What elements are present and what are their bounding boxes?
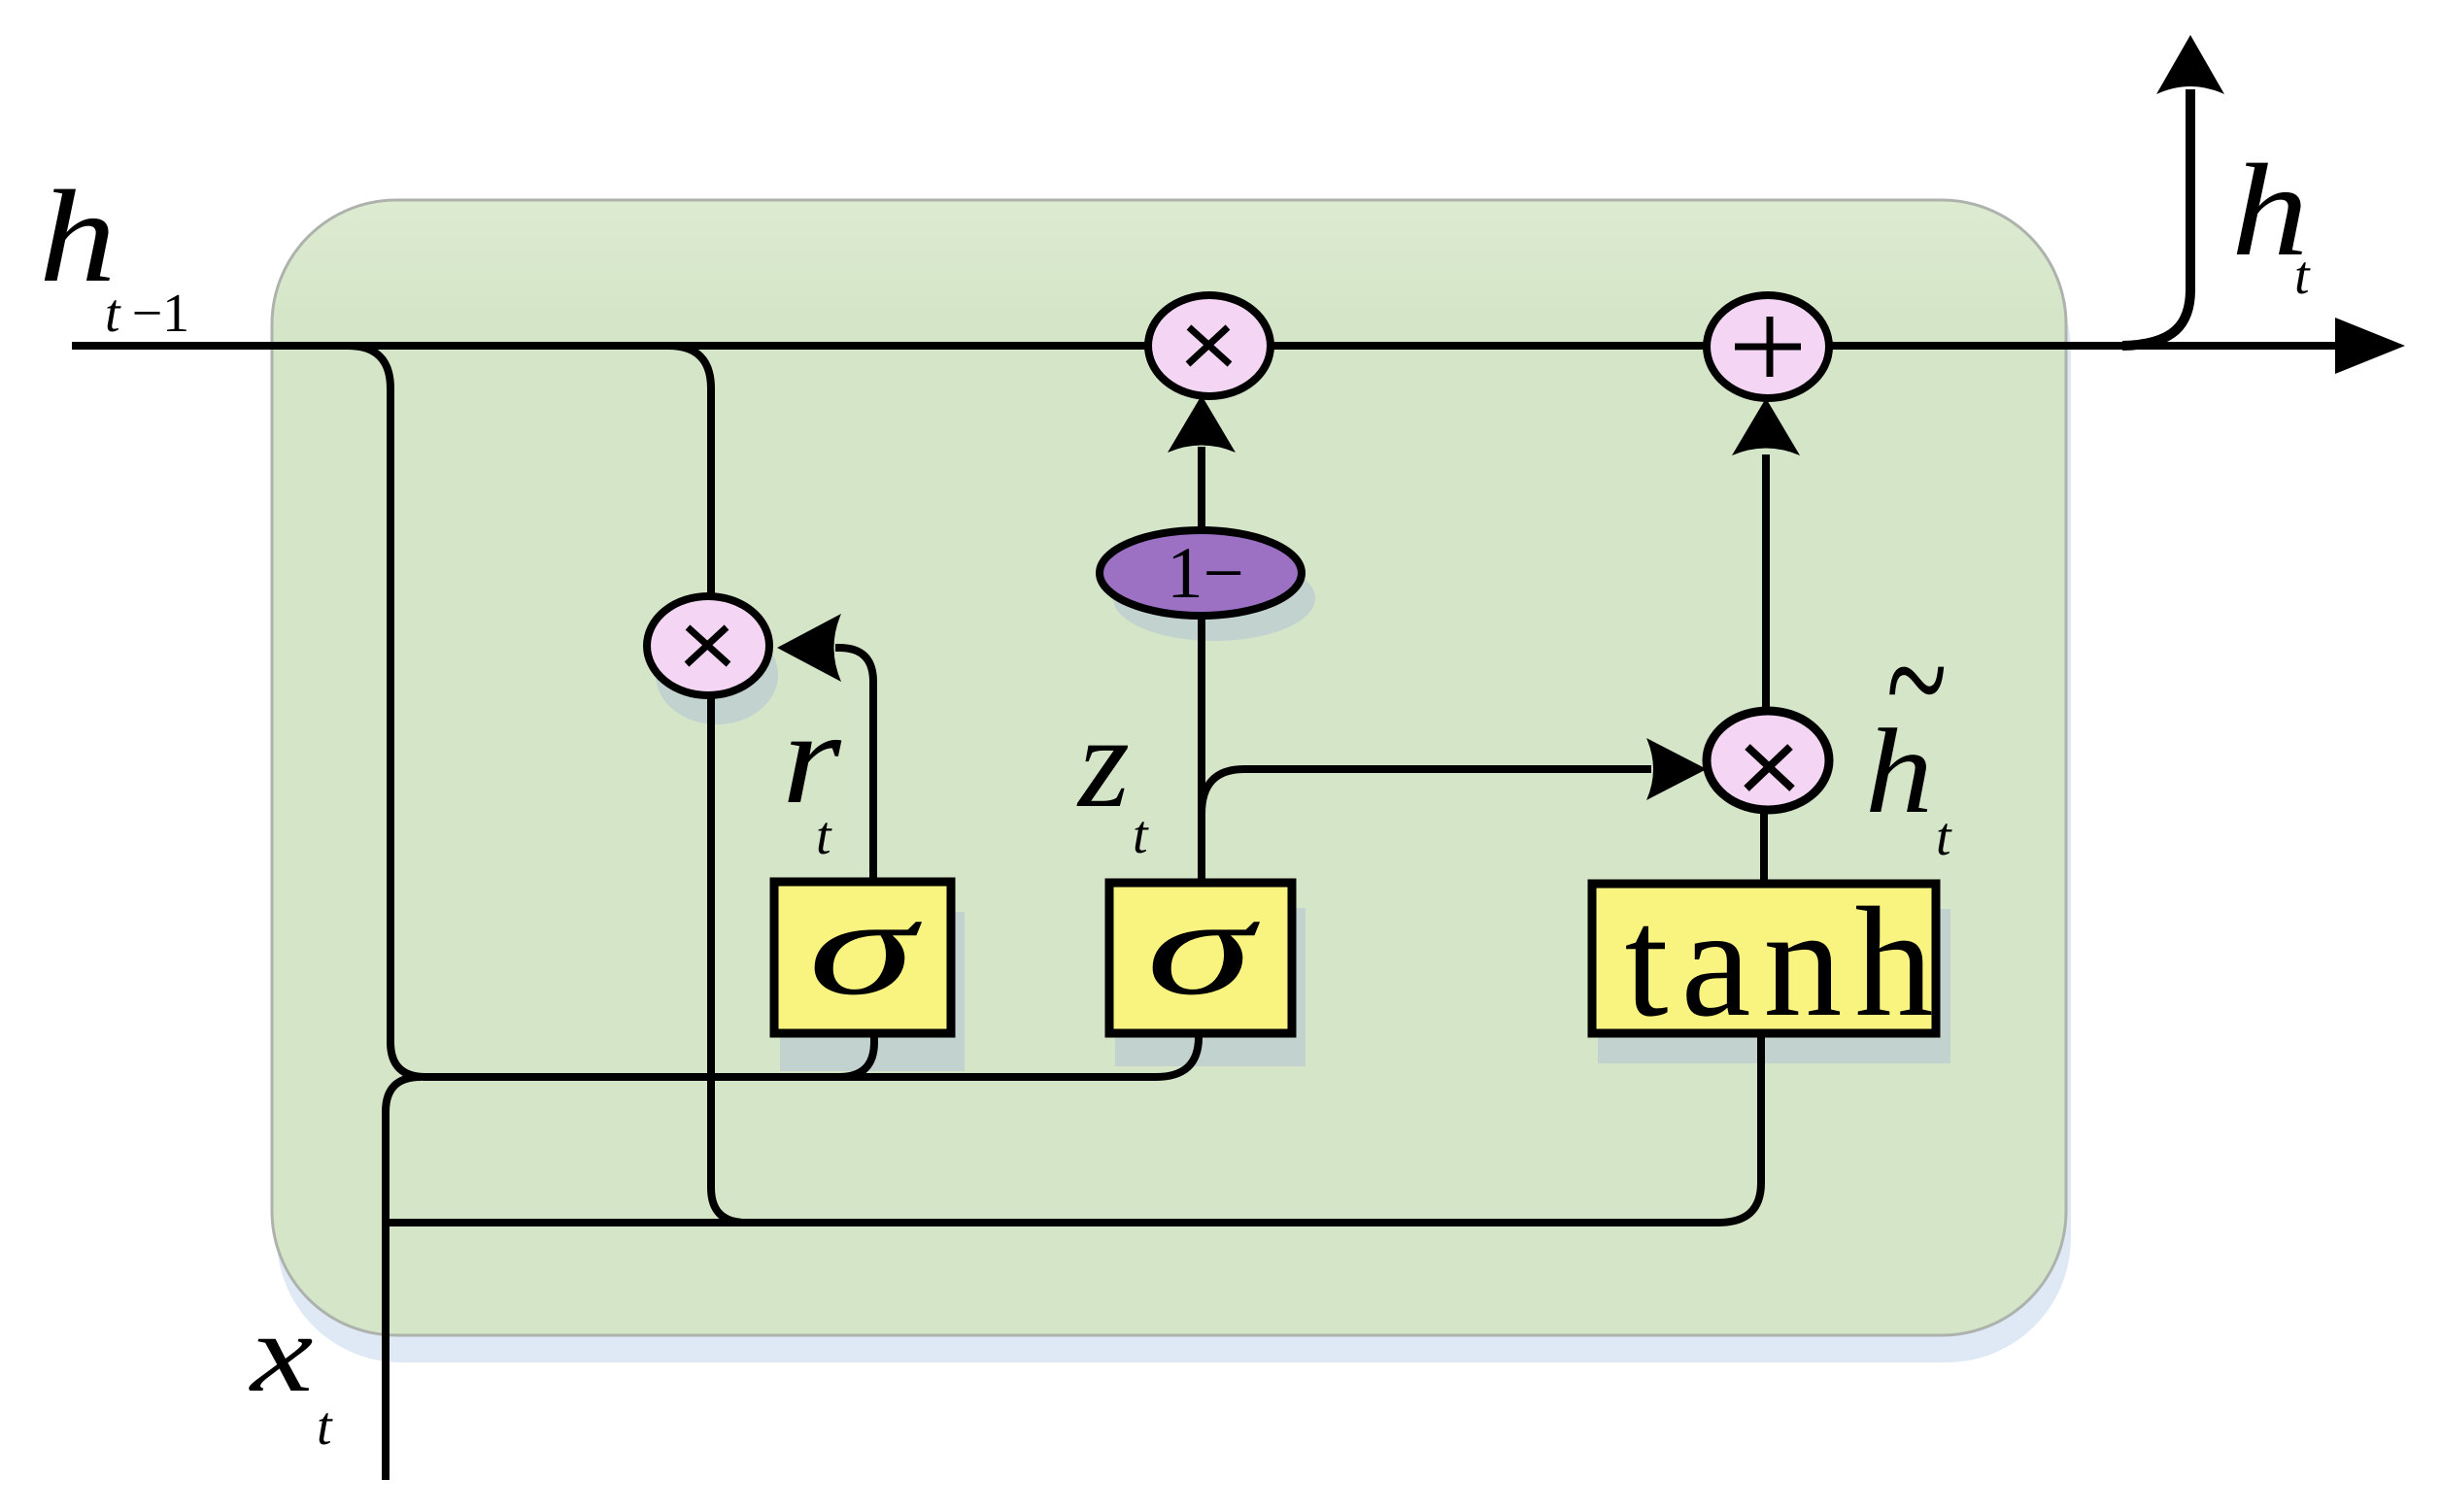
wire: z(t) branch right to candidate multiply gate <box>1202 769 1651 814</box>
svg-text:1−: 1− <box>1167 533 1244 614</box>
wire: hook from line1 up into sigma box 1 <box>839 1033 874 1077</box>
wire: line2 from x(t) junction to tanh bottom <box>386 1035 1761 1223</box>
svg-text:t: t <box>816 806 832 866</box>
svg-text:t: t <box>1936 807 1952 867</box>
1-minus node <box>1100 530 1302 616</box>
arrowhead h(t) up output <box>2156 35 2224 94</box>
GRU cell drop shadow <box>277 227 2071 1362</box>
shadow of 1-minus ellipse <box>1113 555 1315 641</box>
svg-text:t: t <box>1133 805 1149 865</box>
arrowhead into plus gate (pointing up) <box>1732 398 1800 455</box>
shadow of reset multiply gate <box>656 625 778 724</box>
tanh box <box>1592 876 1946 1050</box>
plus gate (circle with +) <box>1707 295 1829 398</box>
wire: tanh top to candidate gate <box>1760 812 1768 880</box>
wire: 1-minus output up to update multiply gate <box>1198 447 1205 530</box>
svg-text:x: x <box>249 1292 314 1416</box>
svg-text:σ: σ <box>1146 870 1261 1025</box>
wire: x(t) input rising to junction <box>386 1077 421 1480</box>
sigma box 1 (reset gate) <box>774 870 951 1033</box>
reset multiply gate (circle with x) <box>647 596 769 695</box>
candidate multiply gate (circle with x) <box>1707 711 1829 810</box>
arrowhead into update multiply gate (pointing up) <box>1168 395 1236 453</box>
shadow of sigma box 2 <box>1115 908 1305 1066</box>
GRU cell body <box>272 200 2066 1335</box>
arrowhead into candidate multiply gate (pointing right) <box>1646 738 1707 800</box>
svg-text:σ: σ <box>808 870 923 1025</box>
sigma box 2 (update gate) <box>1109 870 1292 1033</box>
svg-text:t: t <box>2294 246 2311 306</box>
arrowhead main line right output <box>2335 318 2405 374</box>
wire: candidate gate up to plus gate <box>1762 454 1770 711</box>
wire: branch 1 from main line down to bottom junction and along line1 into sigma2 <box>348 346 1199 1077</box>
svg-text:t−1: t−1 <box>105 284 189 344</box>
svg-text:tanh: tanh <box>1625 876 1947 1050</box>
svg-text:~: ~ <box>1886 588 1947 772</box>
wire: sigma1 output up to reset gate arrow <box>835 648 873 880</box>
wire: branch 2 from main line down to reset gate <box>668 346 711 594</box>
svg-text:t: t <box>317 1396 333 1457</box>
shadow of tanh box <box>1598 909 1950 1063</box>
wire: h(t) branch curving up from main line <box>2122 89 2190 346</box>
svg-text:r: r <box>782 684 842 830</box>
svg-text:z: z <box>1076 689 1130 835</box>
arrowhead into reset gate (pointing left) <box>777 614 841 682</box>
wire: reset gate output down and right into line2 <box>711 697 746 1223</box>
update multiply gate (circle with x) <box>1148 295 1271 396</box>
shadow of sigma box 1 <box>780 912 965 1071</box>
wire: h(t-1) main line to output arrow <box>72 342 2339 350</box>
wire: z(t) vertical from sigma2 top to 1-minus ellipse <box>1198 615 1205 879</box>
